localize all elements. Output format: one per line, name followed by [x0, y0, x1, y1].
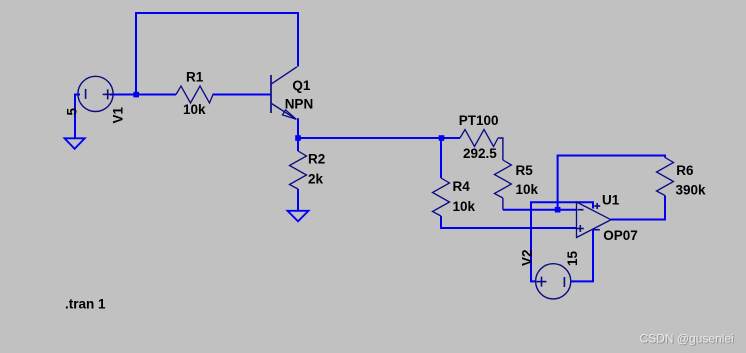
resistor R1	[176, 86, 213, 103]
svg-text:NPN: NPN	[285, 97, 314, 112]
wire R5 to op-amp minus input	[503, 209, 577, 211]
wire R1 to Q1 base	[213, 94, 271, 96]
resistor PT100	[460, 130, 498, 147]
wire V1 right to R1	[110, 94, 176, 96]
svg-text:R5: R5	[516, 163, 534, 178]
wire node to R4	[440, 138, 442, 178]
node C (PT100/R4)	[439, 135, 445, 141]
wire op-amp V+ supply	[531, 202, 593, 281]
svg-text:292.5: 292.5	[463, 146, 497, 161]
svg-text:CSDN @gusenlei: CSDN @gusenlei	[640, 332, 734, 346]
svg-text:390k: 390k	[676, 183, 707, 198]
svg-text:10k: 10k	[183, 102, 206, 117]
wire PT100 to R5	[498, 138, 503, 160]
op-amp U1	[577, 202, 612, 238]
node A (V1/top loop)	[133, 92, 139, 98]
voltage source V1	[78, 76, 113, 111]
wire R6 bottom to op-amp output	[611, 196, 665, 220]
svg-text:10k: 10k	[453, 199, 476, 214]
voltage source V2	[536, 264, 571, 299]
node D (feedback/minus input)	[555, 207, 561, 213]
svg-text:Q1: Q1	[292, 78, 311, 93]
wire R5 bottom lead	[502, 198, 504, 210]
svg-text:15: 15	[565, 250, 580, 266]
wire Q1 emitter down	[297, 118, 299, 138]
resistor R2	[290, 151, 307, 189]
svg-text:2k: 2k	[308, 172, 324, 187]
wire R4 bottom to op-amp plus input	[441, 216, 577, 228]
resistor R6	[657, 158, 674, 196]
wire node to PT100	[442, 137, 461, 139]
svg-text:R4: R4	[453, 179, 471, 194]
svg-text:R2: R2	[308, 152, 325, 167]
svg-text:OP07: OP07	[603, 228, 638, 243]
ground GND2	[288, 211, 309, 222]
svg-text:R1: R1	[186, 69, 204, 84]
svg-text:10k: 10k	[516, 182, 539, 197]
svg-text:V1: V1	[111, 106, 126, 123]
resistor R5	[494, 160, 511, 198]
transistor Q1	[271, 67, 297, 120]
svg-text:V2: V2	[520, 249, 535, 266]
resistor R4	[433, 178, 450, 216]
wire feedback node to R6 top	[558, 156, 665, 210]
svg-text:PT100: PT100	[459, 113, 499, 128]
svg-text:U1: U1	[602, 193, 620, 208]
svg-text:5: 5	[65, 108, 80, 116]
wire top feedback loop collector	[136, 13, 298, 95]
wire V2 minus to op-amp V- pin	[571, 229, 593, 281]
svg-text:.tran 1: .tran 1	[65, 297, 106, 312]
node B (emitter/R2)	[295, 135, 301, 141]
wire emitter node to PT100 node	[298, 137, 442, 139]
svg-text:R6: R6	[676, 163, 694, 178]
wire node to R2	[297, 138, 299, 151]
wire V1 left to ground	[75, 95, 80, 139]
ground GND1	[65, 138, 85, 149]
wire R2 bottom to ground	[297, 189, 299, 211]
